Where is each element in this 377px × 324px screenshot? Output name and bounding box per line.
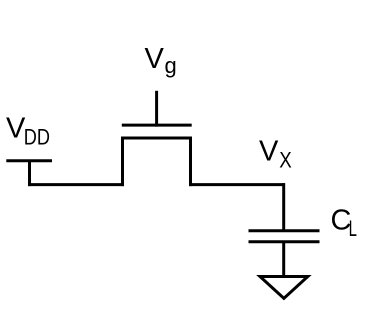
- svg-text:g: g: [165, 53, 177, 78]
- transistor M1 source leg: [189, 137, 192, 187]
- svg-text:L: L: [349, 216, 357, 241]
- wire source to node VX: [189, 183, 285, 186]
- wire capacitor to ground: [282, 242, 285, 277]
- transistor M1 channel bar: [121, 137, 192, 140]
- transistor M1 drain leg: [121, 137, 124, 187]
- svg-text:V: V: [259, 136, 279, 168]
- transistor M1 gate bar: [122, 124, 192, 127]
- svg-text:DD: DD: [24, 125, 50, 150]
- wire node VX drop: [282, 183, 285, 231]
- capacitor CL top plate: [249, 229, 320, 232]
- wire gate lead: [155, 91, 158, 127]
- svg-text:X: X: [279, 148, 292, 173]
- capacitor CL bottom plate: [249, 240, 320, 243]
- svg-text:V: V: [145, 43, 165, 75]
- wire VDD stub down: [28, 161, 31, 186]
- wire drain horizontal: [28, 183, 124, 186]
- ground: [260, 277, 308, 299]
- supply VDD rail bar: [6, 159, 52, 162]
